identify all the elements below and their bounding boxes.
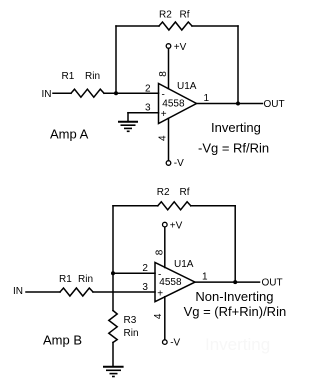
resistor R2 Rf (Amp B) [158,202,191,210]
svg-text:R3: R3 [124,315,137,326]
svg-text:Vg = (Rf+Rin)/Rin: Vg = (Rf+Rin)/Rin [184,304,287,319]
wire: Amp B R1 to pin 3 [93,291,155,293]
svg-text:4558: 4558 [159,277,182,288]
wire: Amp A top horizontal left [116,25,159,27]
svg-text:Amp A: Amp A [50,127,89,142]
svg-text:+V: +V [170,221,183,232]
wire: Amp A R1 to pin 2 [104,92,159,94]
wire: Amp B pin 2 horizontal [113,272,155,274]
resistor R1 Rin (Amp B) [60,288,93,296]
svg-text:-V: -V [174,158,184,169]
wire: Amp A pin 3 horizontal [128,112,159,114]
ground (Amp A) [118,122,138,132]
svg-text:R1: R1 [59,274,72,285]
svg-text:3: 3 [145,103,151,114]
wire: Amp B feedback right vertical [234,206,236,282]
svg-text:Rf: Rf [180,10,190,21]
op-amp U1A (Amp A) triangle [159,84,197,124]
wire: Amp B top horizontal left [113,205,158,207]
wire: Amp A top horizontal right [192,25,238,27]
wire: Amp A IN lead [53,92,71,94]
svg-text:-Vg = Rf/Rin: -Vg = Rf/Rin [198,141,269,156]
wire: Amp A output [197,103,263,105]
svg-text:2: 2 [142,263,148,274]
svg-text:OUT: OUT [264,99,285,110]
terminal -V (Amp B) [163,340,168,345]
svg-text:+V: +V [174,42,187,53]
svg-text:4558: 4558 [162,99,185,110]
svg-text:+: + [161,109,167,120]
terminal -V (Amp A) [166,161,171,166]
svg-text:Rin: Rin [124,328,139,339]
wire: Amp B +V stub [164,227,166,268]
wire: Amp B output [195,281,260,283]
node: Amp A input junction [114,91,118,95]
svg-text:Rf: Rf [180,187,190,198]
op-amp U1A (Amp B) triangle [155,263,195,302]
svg-text:8: 8 [158,71,169,77]
svg-text:1: 1 [202,272,208,283]
terminal +V (Amp B) [163,222,168,227]
svg-text:R2: R2 [159,10,172,21]
svg-text:2: 2 [145,83,151,94]
wire: Amp A pin 4 stub [168,118,170,160]
svg-text:U1A: U1A [174,259,194,270]
svg-text:Inverting: Inverting [205,335,270,354]
svg-text:4: 4 [158,135,169,141]
svg-text:Non-Inverting: Non-Inverting [195,289,273,304]
wire: Amp B feedback left vertical [112,206,114,311]
svg-text:+: + [157,289,163,300]
svg-text:4: 4 [153,313,164,319]
svg-text:3: 3 [142,282,148,293]
svg-text:U1A: U1A [177,81,197,92]
ground (Amp B) [103,367,124,377]
svg-text:Inverting: Inverting [211,120,261,135]
wire: Amp A +V stub [168,49,170,89]
svg-text:Amp B: Amp B [43,333,82,348]
svg-text:IN: IN [13,286,23,297]
node: Amp A output junction [236,102,240,106]
resistor R3 Rin (Amp B) [109,311,117,343]
resistor R2 Rf (Amp A) [159,22,192,30]
svg-text:-V: -V [170,337,180,348]
wire: Amp B R3 to ground [112,343,114,367]
svg-text:Rin: Rin [78,274,93,285]
svg-text:8: 8 [154,249,165,255]
wire: Amp A pin 3 ground jog [127,113,129,122]
wire: Amp A feedback left vertical [115,26,117,93]
wire: Amp B pin 4 stub [164,297,166,340]
svg-text:1: 1 [204,93,210,104]
svg-text:Rin: Rin [85,71,100,82]
wire: Amp B top horizontal right [191,205,235,207]
svg-text:OUT: OUT [262,278,283,289]
wire: Amp B IN lead [26,291,60,293]
wire: Amp A feedback right vertical [237,26,239,104]
terminal +V (Amp A) [166,44,171,49]
svg-text:IN: IN [42,89,52,100]
svg-text:R1: R1 [62,71,75,82]
svg-text:R2: R2 [157,187,170,198]
node: Amp B feedback junction [111,271,115,275]
resistor R1 Rin (Amp A) [71,89,104,97]
node: Amp B output junction [233,280,237,284]
